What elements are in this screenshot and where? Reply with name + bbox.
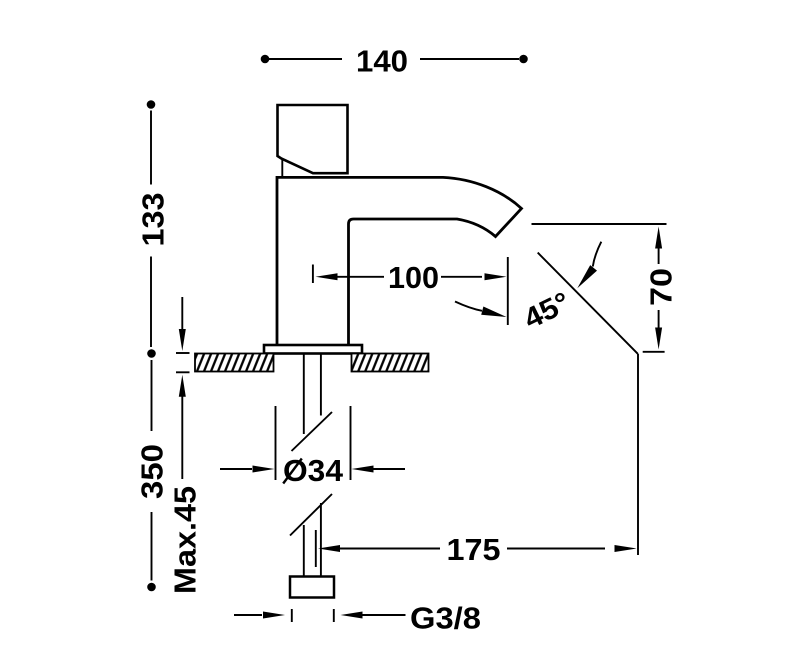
supply pipe upper segment — [290, 354, 332, 578]
45 degree line — [538, 253, 638, 354]
svg-text:133: 133 — [135, 193, 170, 247]
dimension 350 (left lower, dot to dot) — [147, 360, 156, 591]
curved angle arrow for 45deg — [593, 242, 602, 267]
dimension 140 (top) — [261, 55, 528, 64]
right vertical extension line — [637, 354, 639, 555]
dimension 70 (right) — [643, 227, 665, 352]
pipe break line lower — [290, 494, 332, 536]
svg-text:100: 100 — [388, 260, 439, 295]
Ø34 dimension extension lines — [220, 406, 405, 480]
svg-text:G3/8: G3/8 — [410, 601, 481, 636]
dimension 133 (left, dot to dot) — [147, 100, 156, 358]
base flange — [264, 345, 362, 354]
dimension 175 — [316, 530, 637, 567]
dimension G3/8 — [234, 609, 406, 622]
countertop right slab (hatched) — [352, 354, 429, 372]
Max.45 dimension arrows — [176, 297, 190, 479]
faucet handle (lever) — [278, 105, 348, 173]
curved swivel arrow under 100 — [455, 302, 482, 311]
svg-text:140: 140 — [356, 44, 408, 79]
G3/8 nut — [290, 577, 334, 598]
handle front edge line — [281, 159, 283, 176]
svg-text:350: 350 — [135, 444, 170, 499]
dimension 100 — [313, 257, 508, 325]
countertop left slab (hatched) — [195, 354, 274, 372]
svg-text:175: 175 — [447, 532, 501, 567]
spout tip extension line — [532, 223, 667, 225]
svg-text:Max.45: Max.45 — [168, 486, 203, 594]
faucet body and spout outline — [277, 177, 522, 345]
pipe break line upper — [292, 412, 333, 451]
svg-text:70: 70 — [644, 268, 679, 306]
supply pipe lower segment — [303, 525, 305, 577]
